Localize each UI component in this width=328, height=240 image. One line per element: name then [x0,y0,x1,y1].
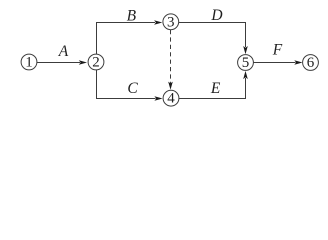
svg-text:E: E [210,80,221,97]
label B [127,7,137,24]
node 5 [238,55,254,71]
label D [210,7,222,24]
label C [127,80,138,97]
svg-text:4: 4 [167,91,175,107]
node 3 [163,14,179,31]
svg-text:2: 2 [92,54,100,70]
wire B: node 2 up and right to node 3 [97,20,163,54]
wire F: node 5 to node 6 [253,60,302,65]
svg-text:C: C [127,80,138,97]
svg-text:1: 1 [25,54,33,70]
node 4 [163,90,179,106]
label A [58,43,69,60]
svg-text:5: 5 [242,55,250,71]
node 1 [21,54,37,70]
svg-text:A: A [58,43,69,60]
label F [272,42,283,59]
label E [210,80,221,97]
wire E: node 4 right and up to node 5 [179,71,248,99]
svg-text:F: F [272,42,283,59]
wire A: node 1 to node 2 [37,60,87,65]
svg-text:6: 6 [307,55,315,71]
svg-text:3: 3 [167,14,175,30]
svg-text:B: B [127,7,137,24]
wire C: node 2 down and right to node 4 [97,70,163,101]
svg-text:D: D [210,7,222,24]
node 6 [303,55,319,71]
node 2 [88,54,104,70]
dummy arrow (dashed) node 3 to node 4 [168,30,173,90]
wire D: node 3 right and down to node 5 [179,23,248,55]
